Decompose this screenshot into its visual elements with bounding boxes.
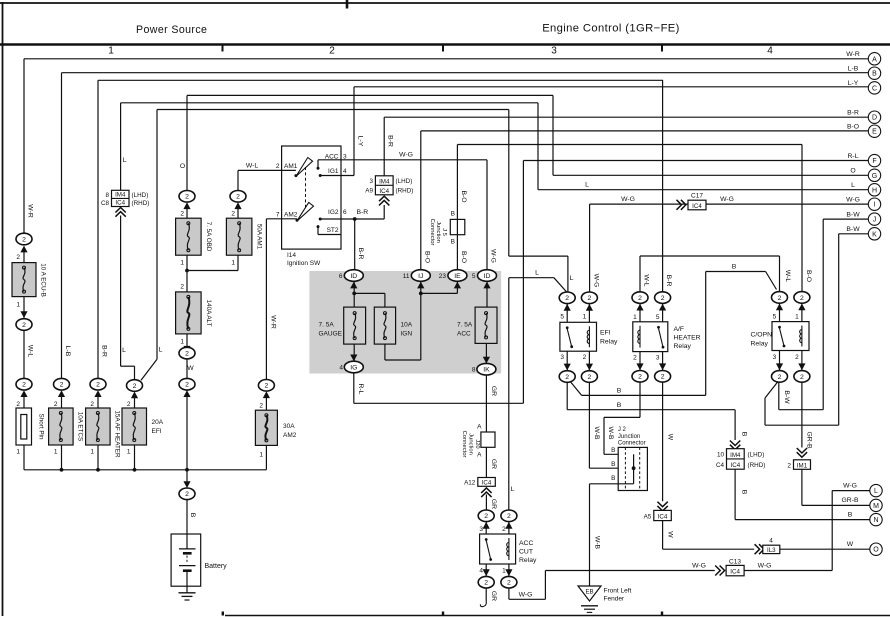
label B (611, 475, 615, 482)
battery box (171, 534, 201, 586)
svg-text:7. 5A: 7. 5A (457, 322, 473, 329)
svg-text:CUT: CUT (519, 549, 533, 556)
svg-text:M: M (873, 503, 879, 510)
wire pin1 (588, 304, 590, 323)
chevron out (115, 208, 125, 217)
svg-text:B-O: B-O (460, 251, 467, 263)
fuse 10A ETCS (49, 408, 74, 445)
relay EFI box (560, 322, 597, 351)
svg-text:A5: A5 (644, 513, 652, 520)
label GR-B at node M (842, 497, 859, 504)
svg-text:1: 1 (180, 260, 184, 267)
svg-text:1: 1 (16, 302, 20, 309)
svg-text:O: O (850, 168, 855, 175)
svg-text:6: 6 (339, 273, 343, 280)
svg-text:E: E (872, 129, 877, 136)
label GR (490, 459, 497, 469)
svg-text:ACC: ACC (519, 540, 533, 547)
label L-Y (357, 136, 364, 147)
svg-text:L: L (535, 270, 539, 277)
relay ACCCUT coil (507, 538, 509, 560)
wire W-R to node A (24, 59, 868, 233)
label W-G (720, 196, 734, 203)
svg-text:1: 1 (259, 452, 263, 459)
pin 4 label (339, 365, 343, 372)
connector 2 AF pin2 (632, 363, 648, 382)
pin 23 label (439, 273, 447, 280)
svg-text:B-R: B-R (357, 209, 369, 216)
svg-text:3: 3 (479, 526, 483, 533)
connector 2 AF pin3 (655, 363, 671, 382)
svg-text:2: 2 (800, 295, 804, 302)
svg-text:1: 1 (54, 449, 58, 456)
labels LHD RHD (748, 452, 766, 470)
label 10A IGN (401, 322, 413, 338)
wire pin5 (662, 303, 664, 321)
svg-text:Fender: Fender (604, 596, 625, 603)
pin 2 label (259, 403, 263, 410)
svg-text:A: A (477, 452, 482, 459)
label R-L at node F (848, 153, 859, 160)
wire to battery (186, 500, 188, 549)
connector 2 COPN pin5 (772, 292, 788, 311)
svg-text:L: L (851, 182, 855, 189)
wire GR continuation (485, 588, 487, 601)
label GR (490, 591, 497, 601)
svg-text:B: B (611, 461, 615, 468)
wire L-Y IG1 to node C (320, 87, 868, 176)
svg-text:2: 2 (16, 254, 20, 261)
relay COPN box (772, 322, 809, 351)
wire J20 to A12 (485, 447, 487, 477)
node B (868, 67, 880, 79)
pin 2 label (633, 354, 637, 361)
pin 1 label (231, 260, 235, 267)
svg-text:A: A (872, 56, 877, 63)
wire IM4 to node D (379, 196, 389, 219)
svg-text:IG1: IG1 (328, 168, 339, 175)
svg-text:IC4: IC4 (731, 462, 741, 469)
label C17 (691, 193, 703, 200)
connector 2 short pin (16, 378, 32, 397)
connector A5 IC4 (654, 510, 672, 520)
label L-B at node B (848, 65, 859, 72)
wire ID5 to ACC fuse (486, 281, 488, 307)
connector 2 ACCCUT pin3 (478, 510, 494, 529)
header separator tick (346, 0, 349, 9)
label B (617, 402, 622, 409)
pin 5 label (656, 314, 660, 321)
wire branch to IGN fuse (354, 293, 385, 307)
connector 2 AF heater fuse (90, 378, 106, 397)
label L (570, 275, 574, 282)
svg-text:IK: IK (483, 367, 490, 374)
svg-text:10 A ECU-B: 10 A ECU-B (40, 263, 47, 297)
svg-text:IGN: IGN (401, 331, 413, 338)
label O (180, 163, 185, 170)
svg-text:2: 2 (484, 580, 488, 587)
node H (868, 184, 880, 196)
label Battery (205, 563, 228, 570)
wire pin3 (779, 351, 781, 371)
node D (868, 111, 880, 123)
svg-text:B-R: B-R (357, 248, 364, 260)
connector ID 5 (478, 270, 497, 289)
pin 4 label (479, 568, 483, 575)
svg-text:B: B (451, 239, 455, 246)
pin 5 label (773, 313, 777, 320)
svg-text:W-B: W-B (593, 536, 600, 550)
label W-G at node I (846, 196, 860, 203)
label B (732, 264, 737, 271)
svg-text:30A: 30A (283, 423, 295, 430)
fuse 10A ECU-B (12, 263, 36, 297)
wire W-R from AM2 (266, 219, 297, 380)
svg-text:L-Y: L-Y (848, 80, 859, 87)
column tick 3-4 (661, 45, 663, 52)
pin 2 label (583, 354, 587, 361)
svg-text:IM4: IM4 (730, 452, 741, 459)
label I14 Ignition SW (287, 252, 321, 267)
wire connector to short pin (23, 394, 25, 408)
connector IG 4 (344, 355, 363, 373)
label L-Y at node C (848, 80, 859, 87)
svg-text:B-W: B-W (846, 226, 860, 233)
connector IM1 (794, 460, 811, 470)
label 10A ETCS (77, 412, 84, 441)
label W-G (490, 249, 497, 263)
wire pin1 (801, 303, 803, 321)
svg-text:J20: J20 (474, 439, 480, 448)
svg-text:H: H (872, 187, 877, 194)
wire gauge to IG (353, 344, 355, 361)
label 10 A ECU-B (40, 263, 47, 297)
label O at node G (850, 168, 855, 175)
wire B to IM4 connector (567, 382, 735, 440)
wire IG2 to junction (320, 217, 384, 221)
svg-text:7. 5A: 7. 5A (319, 322, 335, 329)
node O (870, 543, 882, 555)
pin 2 label (127, 401, 131, 408)
wire GR IK to J20 (485, 375, 487, 432)
svg-text:W-G: W-G (490, 249, 497, 263)
title Engine Control (1GR-FE) (542, 23, 680, 35)
contact AM2 (296, 219, 299, 222)
svg-text:2: 2 (133, 383, 137, 390)
svg-text:2: 2 (633, 354, 637, 361)
svg-text:W: W (666, 531, 673, 538)
svg-text:W-G: W-G (843, 482, 857, 489)
relay COPN switch (778, 326, 785, 348)
column number 3 (551, 46, 557, 57)
node I (868, 198, 880, 210)
pin 2 label (54, 401, 58, 408)
svg-text:AM1: AM1 (284, 163, 298, 170)
svg-text:2: 2 (329, 46, 335, 57)
svg-text:L: L (874, 488, 878, 495)
label B-W at node J (846, 211, 860, 218)
svg-text:Ignition SW: Ignition SW (287, 260, 321, 267)
fuse 50A AM1 (226, 218, 252, 255)
label A (477, 452, 482, 459)
svg-text:A: A (477, 424, 482, 431)
pin 8 label (472, 367, 476, 374)
svg-text:L: L (123, 157, 127, 164)
label GR-B (806, 432, 813, 449)
svg-text:4: 4 (479, 568, 483, 575)
wire L diagonal branch (141, 110, 509, 381)
svg-text:J: J (873, 217, 877, 224)
node A (868, 53, 880, 65)
ground bars (581, 606, 598, 613)
connector 2 EFI relay pin5 (559, 292, 575, 311)
fuse 15A AF HEATER (86, 408, 111, 445)
connector 2 AM2 fuse (258, 380, 274, 399)
relay AF switch (657, 326, 664, 349)
svg-text:Relay: Relay (674, 343, 692, 350)
svg-text:2: 2 (185, 194, 189, 201)
connector 2 AM1 (230, 191, 246, 210)
svg-text:Battery: Battery (205, 563, 228, 570)
connector 2 COPN pin3 (772, 363, 788, 382)
label B (611, 447, 615, 454)
wire pin3 (485, 522, 487, 534)
svg-text:IC4: IC4 (692, 203, 702, 210)
wire W-G to node I (590, 204, 869, 292)
connector A12 IC4 (478, 478, 496, 487)
junction connector J20 (481, 432, 495, 447)
svg-text:A9: A9 (365, 188, 373, 195)
wire L via IM4 connector (121, 103, 135, 380)
label W-G (519, 592, 533, 599)
svg-text:B-R: B-R (665, 275, 672, 287)
wire W to node O (780, 548, 870, 550)
svg-text:W-G: W-G (592, 274, 599, 288)
wire pin2 (508, 522, 510, 534)
fuse 7.5A OBD (176, 218, 202, 255)
wire W (186, 359, 188, 379)
pin 2 label (787, 462, 791, 469)
wire B-W to node K (765, 234, 868, 425)
svg-text:IG2: IG2 (328, 209, 339, 216)
wire pin1 (639, 303, 641, 321)
contact ST2 stub (317, 225, 342, 234)
svg-text:B: B (189, 513, 196, 518)
label 7. 5A GAUGE (319, 322, 343, 338)
wire pin4 (485, 564, 487, 576)
label Short Pin (38, 414, 45, 440)
pin 1 label (180, 339, 184, 346)
svg-text:2: 2 (22, 382, 26, 389)
connector IJ 11 (411, 270, 430, 289)
svg-text:A/F: A/F (674, 326, 685, 333)
label A (477, 424, 482, 431)
connector IM4 IC4 10 C4 (727, 449, 745, 470)
contact ACC stub (317, 160, 320, 170)
wire pin1 (508, 564, 510, 576)
svg-text:2: 2 (638, 374, 642, 381)
svg-text:C4: C4 (716, 462, 725, 469)
svg-text:(RHD): (RHD) (396, 188, 414, 195)
svg-text:2: 2 (185, 382, 189, 389)
pin labels 3 A9 (365, 178, 373, 195)
label J20 Junction Connector (461, 431, 480, 458)
svg-text:2: 2 (60, 382, 64, 389)
label J 5 Junction Connector (429, 219, 447, 246)
wire B-O to node E (421, 131, 869, 270)
svg-text:B-O: B-O (847, 123, 859, 130)
pin 1 label (795, 313, 799, 320)
svg-text:ST2: ST2 (327, 227, 339, 234)
pin 2 label (90, 401, 94, 408)
label R-L (357, 384, 364, 395)
wire junction to ID6 (354, 219, 356, 270)
contact IG2 (319, 218, 322, 221)
svg-text:Relay: Relay (751, 341, 769, 348)
fuse 140A ALT (176, 292, 202, 334)
column number 1 (108, 46, 114, 57)
chevron into IM4 (730, 441, 740, 450)
label W (187, 365, 194, 372)
pin 3 label (560, 354, 564, 361)
label 15A AF HEATER (114, 410, 121, 458)
wire IGN fuse bottom loop (385, 344, 421, 360)
svg-text:1: 1 (583, 313, 587, 320)
svg-text:W-R: W-R (27, 204, 34, 218)
wire connector to fuse (237, 206, 239, 218)
chevron IL3 (755, 544, 764, 554)
svg-text:1: 1 (795, 313, 799, 320)
pin 3 label (773, 354, 777, 361)
svg-text:Relay: Relay (600, 339, 618, 346)
label A/F HEATER Relay (674, 326, 701, 350)
connector 2 battery (179, 481, 195, 499)
page left border (2, 2, 4, 616)
svg-text:8: 8 (472, 367, 476, 374)
relay ACC CUT box (480, 534, 516, 564)
chevron C17 (677, 200, 686, 210)
label GR (490, 386, 497, 396)
wire AM1 fuse to node (187, 255, 238, 270)
node M (870, 499, 882, 511)
wire W-B J2 to ground (590, 484, 634, 586)
svg-text:IG: IG (350, 364, 357, 371)
label L (123, 157, 127, 164)
svg-text:GR: GR (490, 499, 497, 509)
wire fuse to bus (60, 445, 64, 472)
svg-text:I14: I14 (287, 252, 296, 259)
svg-text:HEATER: HEATER (674, 335, 701, 342)
wire W-G ACC to ID5 (318, 160, 487, 270)
wire B-O to C/OPN relay (457, 145, 802, 292)
wire fuse to bus (133, 445, 137, 472)
connector 2 ETCS (54, 378, 70, 397)
wire OBD to ALT (185, 255, 189, 292)
label ACC CUT Relay (519, 540, 537, 564)
svg-text:W-G: W-G (758, 563, 772, 570)
label IG1 4 (328, 168, 347, 175)
svg-text:4: 4 (767, 46, 773, 57)
svg-text:3: 3 (773, 354, 777, 361)
pin 1 label (259, 452, 263, 459)
svg-text:C: C (872, 85, 877, 92)
svg-text:1: 1 (231, 260, 235, 267)
svg-text:2: 2 (800, 374, 804, 381)
node K (868, 228, 880, 240)
fuse block gray panel (309, 271, 501, 374)
wire ACC fuse to IK (485, 343, 487, 363)
svg-text:B-R: B-R (387, 135, 394, 147)
svg-text:B: B (848, 511, 853, 518)
svg-text:W-L: W-L (27, 345, 34, 358)
svg-text:B: B (741, 490, 748, 495)
svg-text:IC4: IC4 (115, 200, 125, 207)
svg-text:140A ALT: 140A ALT (205, 300, 212, 327)
svg-text:W: W (666, 434, 673, 441)
svg-text:IM4: IM4 (115, 191, 126, 198)
svg-text:L-B: L-B (848, 65, 859, 72)
column number 2 (329, 46, 335, 57)
wire pin2 (588, 351, 590, 370)
label L at node H (851, 182, 855, 189)
label B-O (460, 251, 467, 263)
svg-text:3: 3 (560, 354, 564, 361)
svg-text:L-Y: L-Y (357, 136, 364, 147)
chevron into IM1 (797, 448, 807, 457)
svg-text:B-W: B-W (783, 390, 790, 404)
wire W-B AF pin2 to J2 (604, 382, 640, 454)
svg-text:2: 2 (778, 374, 782, 381)
label W-R (270, 315, 277, 329)
connector ID 6 (344, 270, 363, 289)
svg-text:3: 3 (656, 354, 660, 361)
svg-text:1: 1 (127, 449, 131, 456)
pin labels 10 C4 (716, 452, 725, 470)
pin 1 label (502, 568, 506, 575)
svg-text:Junction: Junction (468, 433, 474, 455)
wire B EFI pin3 diagonal (571, 382, 706, 396)
svg-text:5: 5 (472, 273, 476, 280)
bottom tick 3-4 (661, 612, 663, 616)
wire to bus and battery (185, 390, 189, 472)
node C (868, 82, 880, 94)
label C13 (729, 559, 741, 566)
svg-text:W-B: W-B (607, 426, 614, 440)
svg-text:(RHD): (RHD) (748, 462, 766, 469)
label Front Left Fender (604, 588, 632, 603)
label B-O at node E (847, 123, 859, 130)
connector 2 ACCCUT pin1 (501, 569, 517, 588)
label GR (490, 499, 497, 509)
svg-text:2: 2 (54, 401, 58, 408)
svg-text:2: 2 (638, 295, 642, 302)
svg-text:W-G: W-G (621, 196, 635, 203)
wire pin3 (566, 351, 568, 370)
label 4 (769, 538, 773, 545)
svg-text:R-L: R-L (848, 153, 859, 160)
node G (868, 169, 880, 181)
svg-text:(LHD): (LHD) (396, 178, 413, 185)
svg-text:AM2: AM2 (283, 432, 297, 439)
label W-L (27, 345, 34, 358)
svg-text:2: 2 (588, 295, 592, 302)
wire W-G to node L (744, 491, 870, 571)
label W (666, 434, 673, 441)
svg-text:G: G (872, 173, 877, 180)
svg-text:L: L (122, 347, 126, 354)
wire connector to fuse (97, 394, 99, 408)
label 20A EFI (152, 419, 164, 435)
